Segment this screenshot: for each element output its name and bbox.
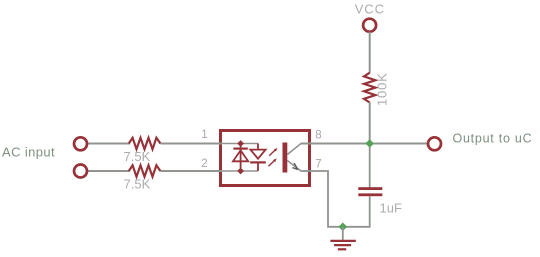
wire inside opto: bottom rail pin2 to diodes bbox=[222, 170, 258, 172]
svg-text:1uF: 1uF bbox=[380, 200, 402, 215]
wire capacitor to ground rail bbox=[343, 196, 370, 227]
junction diamond on pin1 rail bbox=[237, 140, 244, 147]
LED D2 triangle (pointing down) bbox=[250, 150, 265, 159]
wire opto pin 7 to ground rail bbox=[301, 171, 343, 227]
collector line bbox=[287, 144, 311, 155]
capacitor C1 plate 2 bbox=[358, 193, 382, 196]
port pad VCC bbox=[363, 19, 376, 32]
resistor R1 7.5K bbox=[129, 138, 161, 149]
wire inside opto: top rail pin1 to diodes bbox=[222, 143, 258, 145]
svg-text:7: 7 bbox=[315, 159, 321, 171]
wire junction down to capacitor bbox=[369, 144, 371, 188]
ground stem bbox=[342, 227, 344, 240]
svg-text:1: 1 bbox=[201, 129, 207, 141]
light arrow 1 bbox=[269, 149, 276, 155]
optocoupler OK1 body bbox=[221, 131, 310, 186]
resistor R3 100K (vertical) bbox=[364, 73, 375, 103]
ground symbol bar 3 bbox=[338, 248, 346, 250]
svg-text:AC input: AC input bbox=[2, 144, 55, 159]
svg-text:100K: 100K bbox=[374, 72, 389, 106]
LED D1 (up) lead bbox=[240, 144, 242, 172]
LED D1 triangle (pointing up) bbox=[233, 150, 248, 161]
LED D2 (down) lead top bbox=[257, 144, 259, 151]
light arrow 2 bbox=[269, 160, 276, 166]
port pad P2 AC input bottom bbox=[74, 165, 87, 178]
wire opto pin 8 to output pad bbox=[301, 143, 429, 145]
wire AC bottom: pad to R2 bbox=[86, 170, 130, 172]
port pad P1 AC input top bbox=[74, 137, 87, 150]
LED D2 cathode bar bbox=[250, 161, 266, 163]
ground symbol bar 1 bbox=[330, 240, 355, 242]
LED D2 lead bottom bbox=[257, 162, 259, 171]
svg-text:2: 2 bbox=[201, 158, 207, 170]
svg-text:Output to uC: Output to uC bbox=[453, 132, 533, 146]
wire R1 to opto pin 1 bbox=[161, 143, 223, 145]
svg-text:8: 8 bbox=[315, 130, 321, 142]
wire VCC pad to R3 bbox=[369, 32, 371, 73]
capacitor C1 plate 1 bbox=[358, 187, 382, 190]
wire AC top: pad to R1 bbox=[86, 143, 130, 145]
phototransistor base bar bbox=[283, 143, 288, 173]
svg-text:7.5K: 7.5K bbox=[124, 149, 151, 164]
emitter line bbox=[287, 161, 311, 172]
junction node (main) bbox=[365, 139, 374, 148]
junction node (ground) bbox=[339, 223, 348, 232]
svg-text:VCC: VCC bbox=[355, 2, 385, 17]
junction diamond on pin2 rail bbox=[237, 168, 244, 175]
ground symbol bar 2 bbox=[334, 244, 351, 246]
LED D1 cathode bar bbox=[233, 148, 247, 150]
port pad output bbox=[428, 137, 441, 150]
wire R2 to opto pin 2 bbox=[161, 170, 223, 172]
wire R3 to junction bbox=[369, 102, 371, 143]
resistor R2 7.5K bbox=[129, 165, 161, 176]
emitter arrow bbox=[292, 163, 298, 170]
svg-text:7.5K: 7.5K bbox=[124, 176, 151, 191]
